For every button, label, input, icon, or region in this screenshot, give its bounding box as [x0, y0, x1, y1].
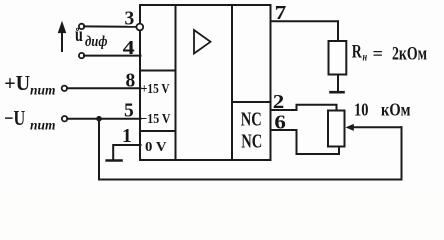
svg-text:−U: −U: [4, 106, 25, 130]
wire wiper: [353, 126, 402, 128]
svg-text:пит: пит: [30, 82, 56, 97]
wire right riser: [401, 127, 403, 179]
divider above NC box: [232, 101, 271, 103]
ground bar load: [331, 91, 344, 94]
open circle pin3 on IC edge: [136, 24, 143, 31]
svg-text:NC: NC: [241, 109, 262, 130]
IC inner divider left column: [175, 5, 177, 160]
terminal +U: [62, 86, 67, 91]
terminal -U: [62, 116, 67, 121]
op-amp triangle symbol: [194, 30, 211, 54]
svg-text:1: 1: [122, 126, 132, 147]
resistor R1 load body: [329, 41, 347, 75]
wire junction -U to bottom rail: [98, 119, 100, 180]
svg-text:2: 2: [273, 92, 285, 113]
svg-text:=: =: [373, 43, 383, 63]
terminal input top: [79, 24, 84, 29]
wire load to ground: [337, 75, 339, 92]
wire pin1 to ground: [113, 145, 140, 160]
svg-text:u: u: [75, 24, 83, 46]
svg-text:NC: NC: [241, 132, 262, 153]
svg-text:−15 V: −15 V: [141, 112, 171, 127]
wire pin4 input: [84, 55, 141, 57]
IC inner divider right column: [231, 5, 233, 160]
wire pin6 to pot bottom: [271, 130, 340, 154]
svg-text:кОм: кОм: [381, 100, 411, 120]
svg-text:10: 10: [354, 99, 369, 119]
dot above u: [76, 28, 78, 30]
svg-text:8: 8: [126, 70, 136, 91]
svg-text:7: 7: [275, 3, 287, 24]
wire pin3 input: [84, 25, 137, 27]
ground bar pin1: [107, 159, 122, 162]
divider above +15V box: [140, 70, 176, 72]
divider above 0V box: [140, 130, 176, 132]
svg-text:диф: диф: [85, 34, 108, 50]
potentiometer R2 body: [328, 111, 345, 147]
svg-text:+U: +U: [4, 71, 30, 95]
arrow u polarity: [58, 22, 65, 52]
svg-text:2кОм: 2кОм: [392, 44, 427, 65]
svg-text:н: н: [363, 50, 368, 64]
svg-text:0 V: 0 V: [145, 140, 167, 155]
wire pin5 -supply: [67, 118, 140, 120]
svg-text:3: 3: [125, 9, 135, 30]
svg-text:6: 6: [274, 112, 286, 133]
svg-text:R: R: [352, 42, 362, 63]
svg-text:4: 4: [123, 38, 135, 59]
wire pin2 to pot top: [271, 105, 337, 111]
junction node -U rail: [96, 116, 102, 122]
wire pin7 output to load: [271, 21, 339, 41]
terminal input bottom: [79, 53, 84, 58]
wire pin8 +supply: [67, 87, 141, 89]
bottom rail wire: [99, 179, 402, 181]
svg-text:пит: пит: [30, 117, 56, 132]
wiper arrowhead: [346, 124, 354, 131]
op-amp IC U1 outer body: [140, 5, 271, 160]
svg-text:5: 5: [124, 100, 134, 121]
svg-text:+15 V: +15 V: [141, 82, 170, 97]
